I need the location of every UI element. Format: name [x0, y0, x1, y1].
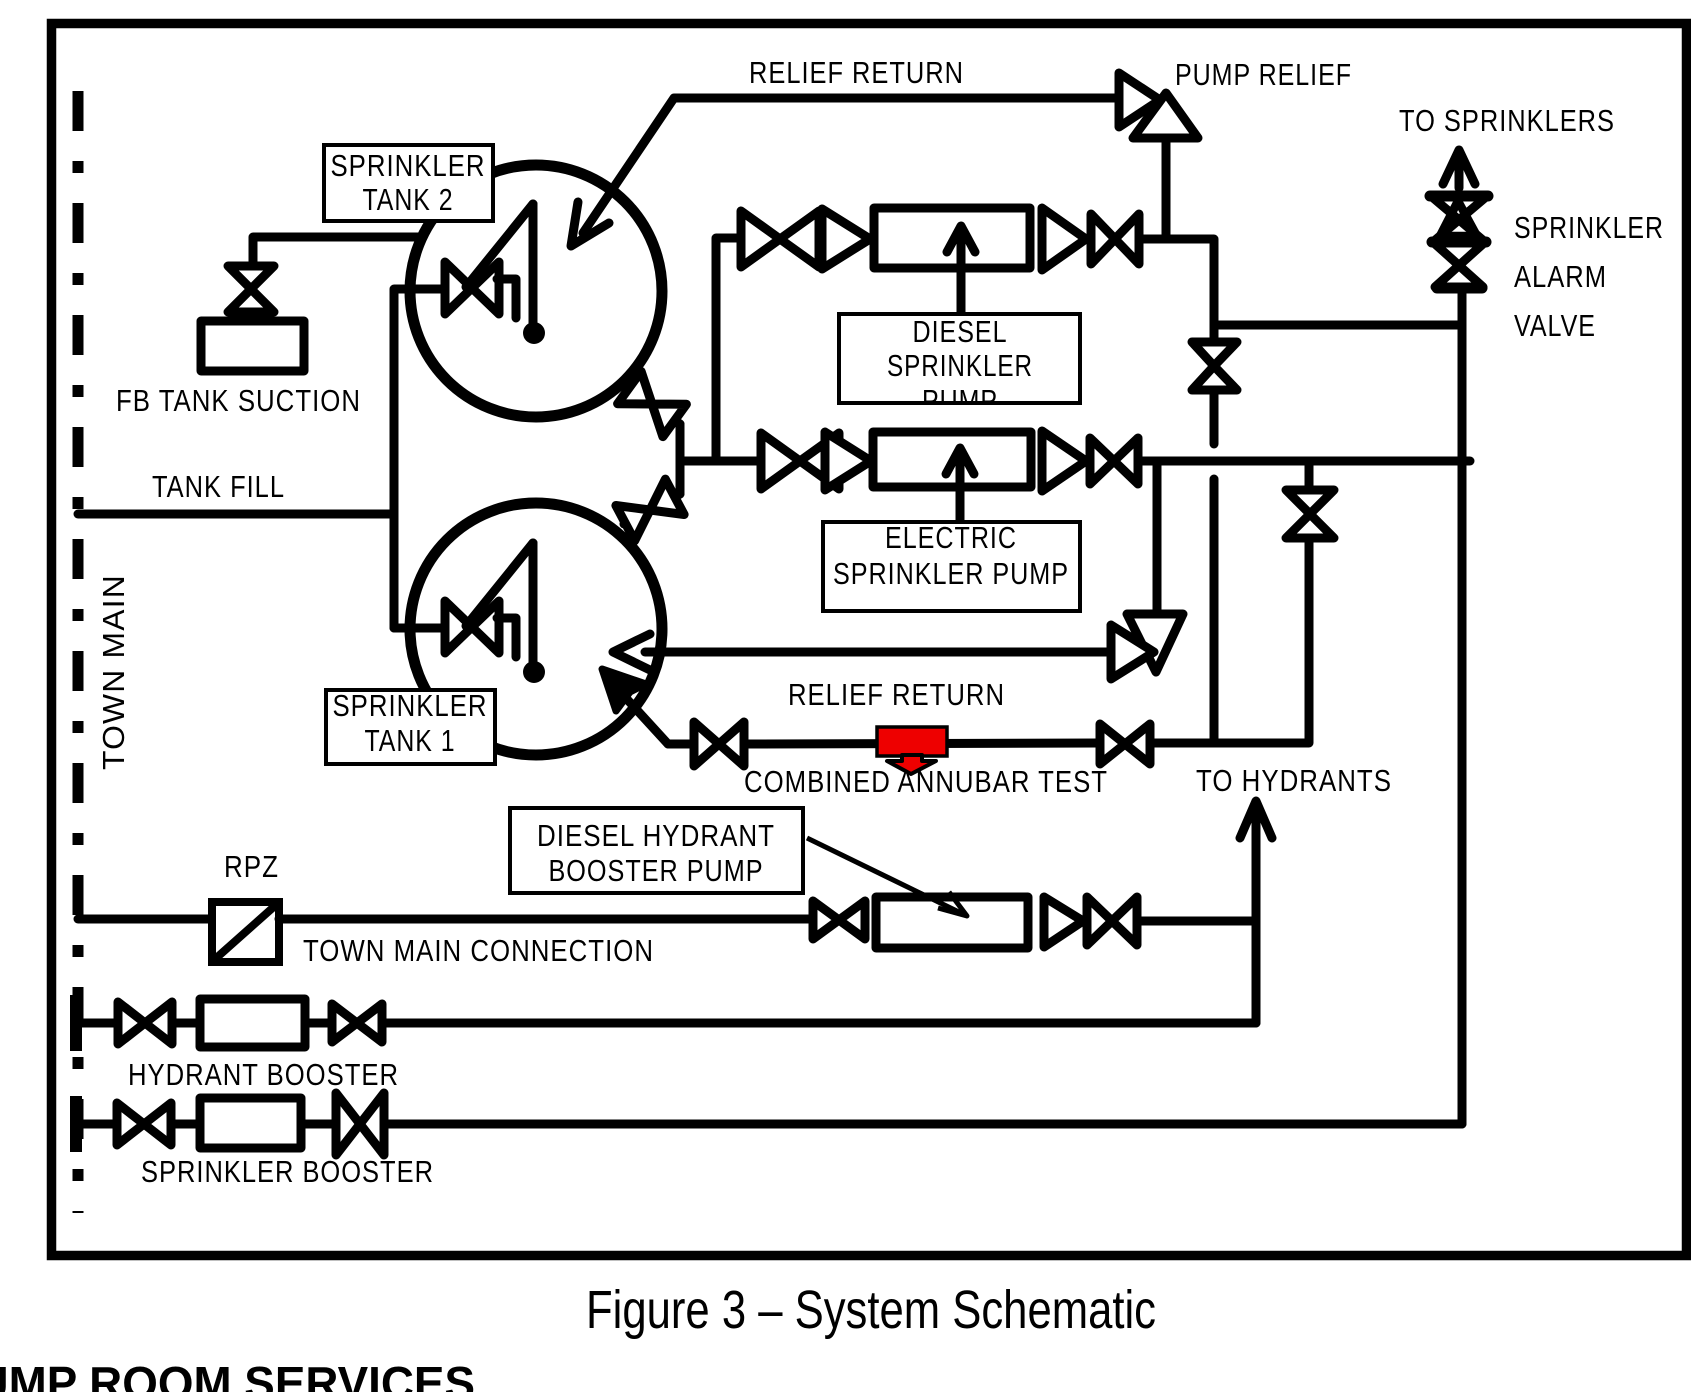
diesel drain stub [1210, 390, 1219, 444]
tank 1 float valve [445, 543, 545, 683]
svg-text:PUMP ROOM SERVICES: PUMP ROOM SERVICES [0, 1357, 475, 1392]
diesel discharge wire [1139, 239, 1214, 342]
annubar test pipe mid [744, 743, 1100, 744]
hydrant booster gate valve 2 [332, 1004, 382, 1042]
sprinkler alarm valve [1430, 196, 1488, 288]
tank 2 suction valve [618, 371, 687, 436]
annubar test pipe right [1150, 538, 1309, 743]
svg-text:RELIEF RETURN: RELIEF RETURN [749, 55, 964, 90]
tank fill pipe [78, 510, 394, 519]
hydrant pump discharge gate valve [1087, 897, 1137, 945]
sprinkler tank 1 label box [326, 688, 495, 764]
pump leader arrow [807, 838, 967, 916]
svg-text:RPZ: RPZ [224, 849, 279, 884]
annubar sense riser [1210, 479, 1219, 741]
electric relief valve [1111, 614, 1183, 679]
hydrant pump gate valve [813, 901, 865, 939]
svg-text:Figure 3 – System Schematic: Figure 3 – System Schematic [586, 1280, 1156, 1340]
hydrant booster pipe 3 [305, 1019, 333, 1028]
sprinkler booster pipe [76, 1120, 117, 1129]
annubar valve stub [1305, 461, 1314, 490]
svg-text:TANK 2: TANK 2 [363, 182, 454, 217]
town main connection pipe [78, 915, 212, 924]
pump relief valve [1119, 73, 1198, 138]
svg-text:TOWN MAIN CONNECTION: TOWN MAIN CONNECTION [303, 933, 654, 968]
town main dashed line [73, 91, 84, 1213]
sprinkler tank 1 [410, 503, 662, 755]
hydrant booster pipe 2 [172, 1019, 200, 1028]
electric relief return pipe [645, 648, 1111, 657]
rpz device [212, 902, 279, 962]
annubar gate valve 1 [694, 722, 744, 766]
suction drop wire [676, 424, 685, 494]
hydrant booster start bar [70, 995, 82, 1051]
hydrant pump check valve [1044, 897, 1083, 947]
diesel sprinkler pump body [874, 208, 1030, 268]
diesel discharge check valve [1042, 208, 1086, 270]
fb tank suction tank [201, 321, 304, 371]
suction header wire [680, 457, 762, 466]
sprinkler tank 2 label box [324, 145, 493, 221]
sprinkler tank 2 [410, 165, 662, 417]
tank 2 float valve [445, 204, 545, 344]
svg-text:ELECTRIC: ELECTRIC [885, 520, 1017, 555]
svg-text:DIESEL: DIESEL [913, 314, 1008, 349]
diesel sprinkler pump label box [839, 314, 1080, 418]
annubar gate valve 2 [1100, 724, 1150, 764]
electric discharge check valve [1042, 431, 1086, 491]
hydrant booster pipe [76, 1019, 119, 1028]
svg-text:VALVE: VALVE [1514, 308, 1596, 343]
svg-text:COMBINED ANNUBAR TEST: COMBINED ANNUBAR TEST [744, 764, 1108, 799]
tank 1 suction valve [616, 479, 684, 541]
electric discharge wire [1138, 457, 1470, 466]
diesel suction gate valve [741, 211, 819, 267]
svg-text:TOWN MAIN: TOWN MAIN [96, 574, 131, 770]
svg-text:HYDRANT BOOSTER: HYDRANT BOOSTER [128, 1057, 399, 1092]
sprinkler booster body [200, 1098, 301, 1148]
pump relief riser [1162, 138, 1171, 239]
electric sprinkler pump label box [823, 520, 1080, 611]
sprinkler booster start bar [70, 1096, 82, 1152]
svg-text:SPRINKLER: SPRINKLER [331, 148, 486, 183]
diesel hydrant booster pump label box [510, 808, 803, 893]
electric suction gate valve [761, 433, 839, 489]
hydrant booster pipe 4 [382, 1019, 1256, 1028]
fb tank suction pipe [253, 237, 423, 267]
tank 2 suction diagonal [625, 384, 680, 424]
relief return pipe [583, 98, 1119, 233]
sprinkler booster pipe 3 [301, 1120, 336, 1129]
diesel test tee wire [1214, 321, 1462, 330]
annubar tank arrow [602, 669, 668, 744]
town main connection pipe 2 [279, 915, 813, 924]
svg-text:SPRINKLER BOOSTER: SPRINKLER BOOSTER [141, 1154, 434, 1189]
sprinkler booster gate valve 1 [117, 1103, 171, 1145]
diesel pump arrow [947, 226, 975, 316]
svg-text:BOOSTER PUMP: BOOSTER PUMP [549, 853, 764, 888]
sprinkler booster pipe 2 [171, 1120, 200, 1129]
sprinkler booster gate valve 2 [336, 1093, 384, 1155]
svg-text:PUMP RELIEF: PUMP RELIEF [1175, 57, 1352, 92]
electric pump arrow [946, 448, 974, 521]
svg-text:TO SPRINKLERS: TO SPRINKLERS [1399, 103, 1615, 138]
fb tank suction valve [228, 266, 274, 312]
tank 1 feed wire [394, 624, 445, 633]
to sprinklers arrow [1443, 150, 1475, 188]
svg-text:SPRINKLER: SPRINKLER [333, 688, 488, 723]
svg-text:TANK 1: TANK 1 [365, 723, 456, 758]
electric relief riser [1153, 461, 1162, 614]
relief return arrow [571, 202, 609, 246]
svg-text:SPRINKLER PUMP: SPRINKLER PUMP [833, 556, 1069, 591]
hydrant discharge wire [1137, 917, 1256, 926]
svg-text:FB TANK SUCTION: FB TANK SUCTION [116, 383, 361, 418]
svg-text:TANK FILL: TANK FILL [152, 469, 285, 504]
to hydrants riser [1252, 812, 1261, 1023]
electric relief return arrow [613, 634, 650, 670]
diesel discharge gate valve [1091, 214, 1139, 264]
svg-text:TO HYDRANTS: TO HYDRANTS [1196, 763, 1392, 798]
fb tank suction stub [247, 312, 256, 322]
svg-text:SPRINKLER: SPRINKLER [887, 348, 1033, 383]
svg-text:RELIEF RETURN: RELIEF RETURN [788, 677, 1005, 712]
annubar test pipe left [668, 740, 694, 749]
annubar isolation valve [1286, 490, 1334, 538]
combined annubar sensor [877, 727, 947, 774]
sprinkler alarm riser [1458, 292, 1467, 1124]
svg-text:DIESEL HYDRANT: DIESEL HYDRANT [537, 818, 775, 853]
diesel test valve [1192, 342, 1237, 390]
electric check valve [825, 432, 871, 490]
svg-text:ALARM: ALARM [1514, 259, 1607, 294]
tank 1 suction diagonal [624, 494, 680, 524]
svg-text:SPRINKLER: SPRINKLER [1514, 210, 1664, 245]
diesel check valve [822, 209, 870, 269]
sprinkler booster pipe 4 [384, 1120, 1462, 1129]
electric sprinkler pump body [873, 432, 1031, 487]
diesel hydrant booster pump body [876, 897, 1028, 948]
hydrant booster gate valve 1 [118, 1002, 172, 1044]
to hydrants arrow [1240, 801, 1272, 838]
tank riser wire [394, 289, 445, 628]
electric discharge gate valve [1090, 438, 1138, 484]
svg-text:PUMP: PUMP [922, 383, 998, 418]
hydrant booster body [200, 999, 305, 1047]
diesel suction riser [716, 238, 741, 461]
